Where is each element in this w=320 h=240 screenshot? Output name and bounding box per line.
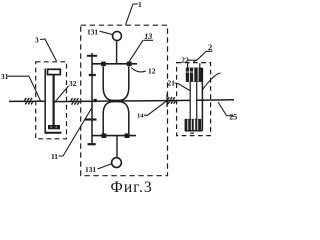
svg-text:13: 13 — [144, 32, 152, 41]
svg-text:32: 32 — [69, 79, 77, 88]
svg-text:1: 1 — [138, 0, 142, 9]
svg-text:131: 131 — [87, 28, 98, 37]
svg-text:131: 131 — [85, 165, 96, 174]
svg-text:31: 31 — [1, 72, 9, 81]
svg-text:3: 3 — [35, 36, 39, 45]
svg-text:Фиг.3: Фиг.3 — [111, 179, 153, 193]
svg-text:25: 25 — [229, 112, 237, 121]
svg-text:22: 22 — [181, 55, 189, 64]
svg-text:11: 11 — [51, 152, 58, 161]
svg-text:21: 21 — [168, 78, 176, 87]
svg-text:14: 14 — [137, 112, 144, 119]
svg-text:2: 2 — [208, 42, 212, 52]
svg-text:12: 12 — [148, 67, 156, 76]
